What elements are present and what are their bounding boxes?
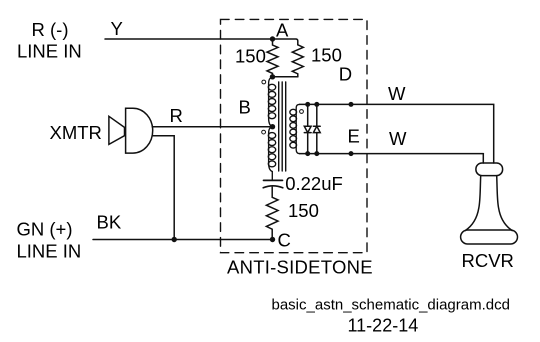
wire capacitor to bottom resistor <box>271 187 273 197</box>
svg-text:D: D <box>339 64 352 85</box>
wire secondary top / node D to receiver <box>300 104 494 163</box>
svg-text:150: 150 <box>235 46 266 67</box>
receiver RCVR base <box>461 230 518 244</box>
wire Y: R(-) line-in to node A <box>105 38 273 40</box>
resistor 150 left (node A to winding top) <box>267 39 278 77</box>
transformer phase dot lower primary <box>262 130 266 134</box>
diode right (anode down) <box>313 104 320 153</box>
svg-text:R (-): R (-) <box>32 19 69 40</box>
receiver RCVR cap <box>476 163 503 176</box>
anti-sidetone network boundary (dashed box) <box>221 19 368 252</box>
transformer phase dot secondary <box>300 110 304 114</box>
resistor 150 right (node A to winding top) <box>292 45 303 77</box>
capacitor 0.22uF top plate <box>264 179 283 181</box>
junction node A <box>270 36 275 41</box>
wire right resistor bottom to node at winding top <box>273 76 298 78</box>
svg-text:150: 150 <box>311 45 342 66</box>
XMTR body <box>126 108 153 153</box>
junction node E <box>349 151 354 156</box>
transformer primary winding lower half (B-C) <box>268 127 275 181</box>
junction resistors bottom / winding top <box>270 74 275 79</box>
svg-text:Y: Y <box>111 18 123 39</box>
svg-text:E: E <box>348 126 360 147</box>
diode left (anode up) <box>304 104 311 153</box>
transformer core <box>279 82 286 171</box>
resistor 150 bottom (cap to node C) <box>266 197 278 239</box>
junction diode right top <box>314 102 319 107</box>
wire secondary bottom / node E to receiver <box>300 153 484 155</box>
svg-text:A: A <box>276 20 289 41</box>
svg-text:0.22uF: 0.22uF <box>285 173 343 194</box>
XMTR cone <box>109 116 125 144</box>
junction diode left bottom <box>305 151 310 156</box>
wire GN(+) line-in BK to node C <box>93 239 273 241</box>
svg-text:150: 150 <box>288 200 319 221</box>
junction XMTR drop on BK wire <box>172 237 177 242</box>
junction node B (center tap) <box>270 124 275 129</box>
svg-text:GN (+): GN (+) <box>17 219 73 240</box>
svg-text:C: C <box>278 230 291 251</box>
svg-text:ANTI-SIDETONE: ANTI-SIDETONE <box>227 257 373 278</box>
wire R: XMTR to node B (primary center tap) <box>152 126 272 128</box>
wire E end drop into receiver cap <box>482 154 484 163</box>
svg-text:XMTR: XMTR <box>50 122 102 143</box>
capacitor 0.22uF bottom plate (curved) <box>263 186 283 188</box>
svg-text:W: W <box>389 128 407 149</box>
svg-text:R: R <box>170 105 183 126</box>
wire XMTR lower terminal down to BK wire <box>152 136 174 240</box>
svg-text:11-22-14: 11-22-14 <box>348 316 419 336</box>
svg-text:B: B <box>239 97 251 118</box>
svg-text:W: W <box>388 83 406 104</box>
receiver RCVR horn <box>465 176 512 231</box>
svg-text:LINE IN: LINE IN <box>17 41 82 62</box>
transformer phase dot upper primary <box>262 80 266 84</box>
svg-text:RCVR: RCVR <box>462 250 514 271</box>
wire node A to right resistor top <box>273 39 298 45</box>
transformer primary winding upper half (A-B) <box>268 77 275 127</box>
svg-text:BK: BK <box>97 212 122 233</box>
junction diode left top <box>305 102 310 107</box>
svg-text:LINE IN: LINE IN <box>17 241 82 262</box>
svg-text:basic_astn_schematic_diagram.d: basic_astn_schematic_diagram.dcd <box>272 297 510 314</box>
junction diode right bottom <box>314 151 319 156</box>
transformer secondary winding (D-E) <box>290 104 300 153</box>
junction node D <box>349 102 354 107</box>
junction node C <box>270 237 275 242</box>
